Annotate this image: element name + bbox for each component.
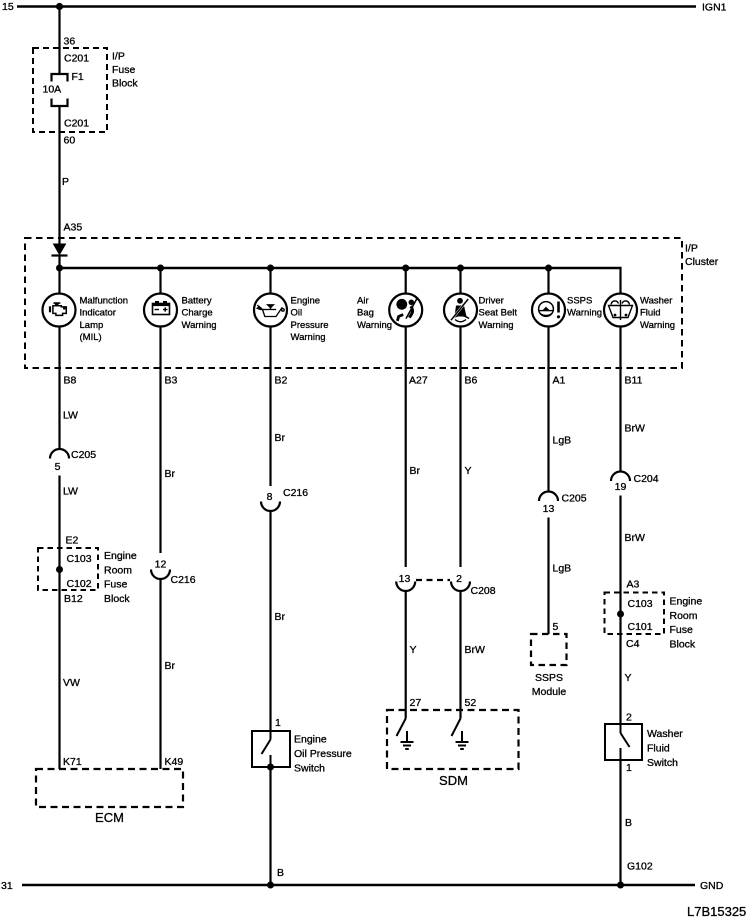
wire C204 to engine room fuse block xyxy=(619,496,621,725)
connector C208 arc (left) xyxy=(396,582,415,592)
label Engine Oil Pressure Warning xyxy=(291,296,329,344)
svg-text:Charge: Charge xyxy=(182,308,213,319)
icon steering wheel + ! xyxy=(539,302,561,319)
svg-text:Oil: Oil xyxy=(291,308,303,319)
label Washer Fluid Switch xyxy=(647,728,683,769)
wire bus to oil lamp xyxy=(269,268,271,294)
connector C205 arc xyxy=(50,449,69,459)
svg-text:LW: LW xyxy=(63,410,78,422)
I/P fuse block box xyxy=(33,48,107,132)
wire washer lamp down to connector C204 xyxy=(619,327,621,473)
connector C216 arc xyxy=(261,502,280,512)
junction node at seat belt lamp xyxy=(457,265,464,272)
svg-text:Driver: Driver xyxy=(479,296,504,307)
junction node at air bag lamp xyxy=(402,265,409,272)
svg-text:Block: Block xyxy=(670,638,696,650)
svg-text:Air: Air xyxy=(357,296,369,307)
wire C216 to ECM xyxy=(159,579,161,769)
svg-text:Y: Y xyxy=(625,672,632,684)
ECM box xyxy=(36,769,183,807)
junction node at oil lamp xyxy=(267,265,274,272)
svg-text:Br: Br xyxy=(275,611,286,623)
connector C204 arc xyxy=(611,472,630,482)
svg-text:C216: C216 xyxy=(283,487,308,499)
svg-text:27: 27 xyxy=(410,697,422,709)
svg-text:C101: C101 xyxy=(628,621,653,633)
svg-text:Fuse: Fuse xyxy=(112,64,136,76)
svg-text:A27: A27 xyxy=(409,375,428,387)
svg-text:Fuse: Fuse xyxy=(104,579,128,591)
svg-text:Lamp: Lamp xyxy=(80,320,104,331)
wire C205 to engine room fuse block xyxy=(58,476,60,770)
svg-text:10A: 10A xyxy=(43,84,62,96)
lamp driver seat belt circle xyxy=(444,294,477,327)
junction node G102 on rail xyxy=(617,882,624,889)
wire C208 to SDM xyxy=(459,591,461,719)
svg-text:Cluster: Cluster xyxy=(685,256,719,268)
svg-text:Washer: Washer xyxy=(640,296,672,307)
svg-text:8: 8 xyxy=(267,491,273,503)
svg-text:Br: Br xyxy=(165,468,176,480)
svg-text:IGN1: IGN1 xyxy=(702,2,727,14)
svg-text:Warning: Warning xyxy=(479,320,514,331)
svg-text:C201: C201 xyxy=(64,53,89,65)
label Engine Oil Pressure Switch xyxy=(294,734,352,775)
svg-text:BrW: BrW xyxy=(625,423,646,435)
connector C208 arc (right) xyxy=(451,582,470,592)
wire switch to ground rail xyxy=(269,767,271,885)
svg-text:C204: C204 xyxy=(634,473,659,485)
wire SSPS lamp down to connector C205 xyxy=(547,327,549,493)
engine room fuse block box (left) xyxy=(38,548,98,590)
wire from rail to fuse F1 xyxy=(58,7,60,74)
svg-text:Switch: Switch xyxy=(294,763,325,775)
svg-text:B6: B6 xyxy=(465,375,478,387)
svg-text:C208: C208 xyxy=(471,585,496,597)
svg-text:LgB: LgB xyxy=(553,435,572,447)
engine room fuse block box (right) xyxy=(605,593,665,635)
wire C216 to oil pressure switch xyxy=(269,511,271,731)
svg-text:LgB: LgB xyxy=(553,563,572,575)
svg-text:B2: B2 xyxy=(275,375,288,387)
svg-text:Washer: Washer xyxy=(647,728,683,740)
label Washer Fluid Warning xyxy=(640,296,675,331)
svg-text:VW: VW xyxy=(63,677,80,689)
svg-text:B: B xyxy=(277,867,284,879)
svg-text:19: 19 xyxy=(615,481,627,493)
svg-text:Y: Y xyxy=(465,465,472,477)
svg-text:Engine: Engine xyxy=(104,550,137,562)
svg-text:31: 31 xyxy=(1,880,13,892)
svg-text:A1: A1 xyxy=(553,375,566,387)
ground (SDM pin 27) xyxy=(401,731,414,749)
svg-text:C205: C205 xyxy=(71,449,96,461)
svg-text:Warning: Warning xyxy=(567,308,602,319)
label Air Bag Warning xyxy=(357,296,392,331)
svg-text:Warning: Warning xyxy=(640,320,675,331)
junction at switch bottom xyxy=(267,764,274,771)
connector link dashed C208 xyxy=(416,579,450,581)
svg-text:SSPS: SSPS xyxy=(567,296,592,307)
wire top rail 15 xyxy=(17,5,696,8)
svg-text:B: B xyxy=(625,817,632,829)
connector C205 arc xyxy=(539,492,558,502)
label Engine Room Fuse Block (left) xyxy=(104,550,137,605)
svg-text:Block: Block xyxy=(112,78,138,90)
switch blade to ground (pin 27) xyxy=(397,719,406,737)
svg-text:60: 60 xyxy=(64,135,76,147)
svg-text:L7B15325: L7B15325 xyxy=(687,904,746,918)
fuse F1 10A xyxy=(52,74,68,106)
wire bus to seat belt lamp xyxy=(459,268,461,294)
lamp engine oil pressure circle xyxy=(254,294,287,327)
wire seat belt lamp down to connector C208 xyxy=(459,327,461,568)
icon seat belt person xyxy=(451,298,469,322)
svg-text:G102: G102 xyxy=(627,861,653,873)
svg-text:ECM: ECM xyxy=(95,810,124,825)
wire bus to battery lamp xyxy=(159,268,161,294)
wire battery lamp down to connector C216 xyxy=(159,327,161,554)
icon washer windshield xyxy=(609,300,633,320)
wire bus to air bag lamp xyxy=(405,268,407,294)
svg-text:SDM: SDM xyxy=(439,773,468,788)
svg-text:(MIL): (MIL) xyxy=(80,332,102,343)
svg-text:C216: C216 xyxy=(171,574,196,586)
wire C208 to SDM xyxy=(405,591,407,719)
svg-text:E2: E2 xyxy=(66,535,79,547)
wire oil lamp down to connector C216 xyxy=(269,327,271,487)
svg-text:Warning: Warning xyxy=(291,332,326,343)
svg-text:Oil Pressure: Oil Pressure xyxy=(294,748,352,760)
svg-text:SSPS: SSPS xyxy=(535,672,563,684)
lamp SSPS circle xyxy=(532,294,565,327)
svg-text:C102: C102 xyxy=(67,578,92,590)
svg-text:F1: F1 xyxy=(72,71,84,83)
svg-text:Malfunction: Malfunction xyxy=(80,296,129,307)
svg-text:13: 13 xyxy=(399,573,411,585)
diode A35 (cluster input) xyxy=(52,244,68,268)
switch blade (oil pressure) xyxy=(262,731,271,767)
svg-text:Seat Belt: Seat Belt xyxy=(479,308,518,319)
wire ground rail xyxy=(22,884,695,886)
wire P from fuse to cluster diode xyxy=(58,106,60,245)
lamp battery charge circle xyxy=(144,294,177,327)
connector C216 arc xyxy=(151,570,170,580)
svg-text:Pressure: Pressure xyxy=(291,320,329,331)
junction node at SSPS lamp xyxy=(545,265,552,272)
svg-text:15: 15 xyxy=(2,1,14,13)
svg-text:BrW: BrW xyxy=(625,532,646,544)
svg-text:5: 5 xyxy=(55,461,61,473)
svg-text:Module: Module xyxy=(532,686,567,698)
svg-text:Switch: Switch xyxy=(647,757,678,769)
wire MIL lamp down to connector C205 xyxy=(58,327,60,450)
switch blade (washer) xyxy=(621,724,630,760)
svg-text:1: 1 xyxy=(626,762,632,774)
svg-text:Warning: Warning xyxy=(182,320,217,331)
wire bus to SSPS lamp xyxy=(547,268,549,294)
svg-text:36: 36 xyxy=(64,36,76,48)
engine oil pressure switch box xyxy=(252,731,290,767)
junction node at MIL xyxy=(56,265,63,272)
svg-text:C103: C103 xyxy=(628,598,653,610)
label SSPS Warning xyxy=(567,296,602,319)
label Engine Room Fuse Block (right) xyxy=(670,596,703,651)
wire air bag lamp down to connector C208 xyxy=(405,327,407,568)
svg-text:52: 52 xyxy=(465,697,477,709)
svg-text:GND: GND xyxy=(700,880,724,892)
svg-text:Engine: Engine xyxy=(294,734,327,746)
svg-text:Y: Y xyxy=(410,644,417,656)
svg-text:Br: Br xyxy=(275,432,286,444)
svg-text:C4: C4 xyxy=(626,638,640,650)
label SSPS Module xyxy=(532,672,567,698)
icon battery xyxy=(153,301,170,315)
wire C205 to SSPS module xyxy=(547,518,549,635)
junction node at battery lamp xyxy=(157,265,164,272)
svg-text:Fluid: Fluid xyxy=(647,743,670,755)
svg-text:13: 13 xyxy=(543,503,555,515)
icon air bag xyxy=(396,299,417,321)
icon engine (MIL) xyxy=(49,303,66,315)
washer fluid switch box xyxy=(605,724,642,760)
svg-text:C205: C205 xyxy=(562,493,587,505)
label Malfunction Indicator Lamp (MIL) xyxy=(80,296,129,344)
svg-text:1: 1 xyxy=(275,717,281,729)
label Driver Seat Belt Warning xyxy=(479,296,518,331)
svg-text:A35: A35 xyxy=(64,222,83,234)
wire bus corner to washer lamp xyxy=(619,267,621,294)
junction in fuse block xyxy=(617,611,624,618)
svg-text:C201: C201 xyxy=(64,118,89,130)
svg-text:B11: B11 xyxy=(625,375,643,387)
svg-text:Br: Br xyxy=(410,465,421,477)
svg-text:LW: LW xyxy=(63,486,78,498)
wire cluster bus xyxy=(60,267,621,269)
svg-text:Br: Br xyxy=(165,660,176,672)
svg-text:Indicator: Indicator xyxy=(80,308,116,319)
svg-text:A3: A3 xyxy=(627,579,640,591)
svg-text:Engine: Engine xyxy=(670,596,703,608)
ground (SDM pin 52) xyxy=(456,731,469,749)
svg-text:Bag: Bag xyxy=(357,308,374,319)
svg-text:Fuse: Fuse xyxy=(670,624,694,636)
wire bus to MIL lamp xyxy=(58,268,60,294)
svg-text:K71: K71 xyxy=(63,756,82,768)
SSPS module box xyxy=(531,634,567,665)
svg-text:BrW: BrW xyxy=(465,644,486,656)
junction on top rail xyxy=(56,3,63,10)
svg-text:Room: Room xyxy=(670,610,698,622)
junction node B on rail xyxy=(267,882,274,889)
svg-text:I/P: I/P xyxy=(112,51,125,63)
svg-text:C103: C103 xyxy=(67,553,92,565)
junction in fuse block xyxy=(56,566,63,573)
svg-text:Block: Block xyxy=(104,593,130,605)
svg-text:B8: B8 xyxy=(64,375,77,387)
svg-text:Room: Room xyxy=(104,564,132,576)
svg-text:K49: K49 xyxy=(165,756,184,768)
label Battery Charge Warning xyxy=(182,296,217,331)
SDM box xyxy=(387,710,519,769)
svg-text:Fluid: Fluid xyxy=(640,308,661,319)
I/P cluster box xyxy=(25,238,682,368)
label I/P Fuse Block xyxy=(112,51,138,90)
svg-text:B12: B12 xyxy=(64,593,83,605)
switch blade to ground (pin 52) xyxy=(452,719,461,737)
wire washer switch to ground rail xyxy=(619,760,621,885)
svg-text:2: 2 xyxy=(456,573,462,585)
svg-text:B3: B3 xyxy=(165,375,178,387)
lamp washer fluid circle xyxy=(604,294,637,327)
svg-text:Battery: Battery xyxy=(182,296,212,307)
svg-text:I/P: I/P xyxy=(685,243,698,255)
svg-text:Engine: Engine xyxy=(291,296,321,307)
svg-text:Warning: Warning xyxy=(357,320,392,331)
lamp air bag circle xyxy=(389,294,422,327)
lamp MIL circle xyxy=(43,294,76,327)
svg-text:P: P xyxy=(62,176,69,188)
svg-text:5: 5 xyxy=(553,621,559,633)
svg-text:2: 2 xyxy=(626,712,632,724)
label I/P Cluster xyxy=(685,243,719,269)
svg-text:12: 12 xyxy=(155,559,167,571)
icon oil can xyxy=(257,305,284,317)
